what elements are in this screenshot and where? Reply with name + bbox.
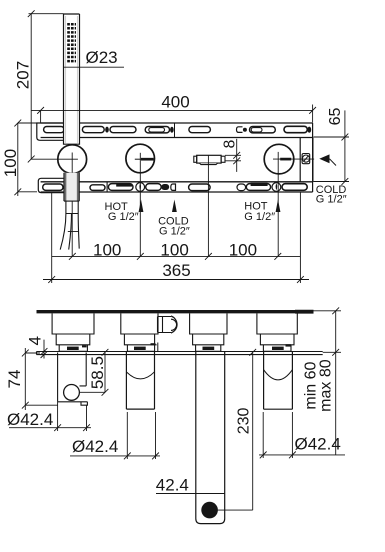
cylinder C3 (center, long) — [196, 351, 225, 523]
svg-text:8: 8 — [221, 140, 238, 149]
dim 400 — [31, 105, 316, 123]
fitting mark bottom — [171, 184, 176, 190]
divider bottom — [106, 182, 108, 193]
wall plate — [37, 352, 323, 355]
svg-text:365: 365 — [162, 261, 190, 280]
dark dot top F — [243, 128, 247, 132]
K1 crosshair horizontal / 207+100 tick line — [31, 158, 78, 160]
teardrop dark top 2 — [170, 127, 174, 133]
hose connector below K1 — [64, 173, 79, 201]
rail top strip — [41, 123, 313, 138]
set screw arrow — [319, 154, 336, 165]
svg-text:74: 74 — [5, 370, 24, 389]
svg-text:100: 100 — [93, 240, 121, 259]
top strip divider — [174, 123, 176, 137]
svg-text:G 1/2″: G 1/2″ — [159, 226, 190, 238]
K2 handle mark — [135, 158, 154, 160]
slot top C — [110, 127, 136, 133]
svg-text:65: 65 — [327, 108, 344, 126]
dark bar in slot F2 — [251, 183, 268, 186]
dim Ø42.4 #3 — [259, 412, 345, 458]
dim 4 — [37, 340, 51, 359]
hose outlet bracket side — [58, 353, 88, 406]
dim 74 — [22, 348, 58, 410]
dim Ø23 leader — [64, 66, 125, 68]
slot bottom F2 (big) — [246, 184, 270, 191]
slot top A (bracket) — [44, 127, 65, 133]
elbow fitting side — [158, 316, 178, 333]
svg-text:Ø42.4: Ø42.4 — [7, 410, 53, 429]
rail bottom strip — [41, 182, 313, 192]
slot bottom G — [282, 184, 307, 191]
dim 100 left — [14, 120, 39, 196]
elbow support line — [157, 343, 159, 352]
slot top E — [189, 127, 211, 133]
slot bottom C (big) — [108, 184, 133, 191]
K2 centerline vertical — [139, 153, 141, 257]
slot top F — [250, 127, 276, 133]
hose upper straight — [66, 201, 78, 213]
set screw — [302, 154, 310, 164]
svg-text:Ø42.4: Ø42.4 — [295, 435, 341, 454]
outlet dot — [201, 502, 218, 519]
left end bracket bottom — [38, 178, 64, 192]
svg-text:G 1/2″: G 1/2″ — [244, 211, 275, 223]
small bracket top F — [237, 127, 243, 133]
cold arrow mid — [172, 200, 177, 213]
rail right dark segment — [295, 310, 314, 314]
svg-text:max 80: max 80 — [317, 359, 334, 412]
svg-text:G 1/2″: G 1/2″ — [108, 211, 139, 223]
svg-text:100: 100 — [160, 240, 188, 259]
dim 58.5 — [80, 349, 109, 396]
dim 230 — [218, 349, 257, 510]
cylinder C2 — [126, 351, 154, 409]
svg-text:400: 400 — [161, 92, 189, 111]
slot bottom E — [189, 184, 211, 191]
dark blob bottom D — [161, 184, 169, 190]
hole glyph bottom 1 — [136, 183, 145, 192]
dim 207 — [28, 10, 64, 162]
rail right edge — [312, 123, 314, 192]
dim 42.4 bottom — [156, 493, 225, 495]
hand shower head and tube — [64, 14, 80, 147]
inner nested end slot D — [149, 128, 165, 132]
hole glyph bottom 2 — [272, 183, 281, 192]
svg-text:4: 4 — [26, 336, 45, 345]
svg-text:207: 207 — [14, 61, 33, 89]
block B1 — [52, 313, 94, 351]
block B3 — [190, 313, 227, 351]
cylinder C4 — [264, 351, 293, 409]
svg-text:Ø42.4: Ø42.4 — [72, 437, 118, 456]
slot bottom B — [90, 185, 105, 191]
knob K1 — [58, 145, 87, 174]
hose curves — [60, 214, 79, 250]
knob K3 — [264, 144, 294, 174]
svg-text:230: 230 — [235, 407, 252, 434]
svg-text:100: 100 — [229, 240, 257, 259]
dim 65 — [314, 110, 350, 184]
dim Ø42.4 #2 — [70, 412, 160, 459]
slot top D — [145, 127, 169, 133]
spray face rows — [67, 24, 76, 61]
slot bottom A (bracket) — [43, 184, 63, 190]
svg-text:42.4: 42.4 — [156, 475, 189, 494]
knob K2 — [126, 144, 155, 173]
teardrop dark top 1 — [105, 127, 109, 133]
block B4 — [257, 313, 297, 351]
dim min60 max80 — [314, 307, 342, 455]
dim Ø42.4 #1 — [9, 402, 91, 431]
teardrop dark top 3 — [307, 127, 311, 133]
slot bottom D — [146, 184, 162, 191]
slot top G — [284, 126, 307, 132]
svg-text:100: 100 — [1, 149, 20, 177]
hot arrow left — [139, 200, 144, 213]
svg-text:58.5: 58.5 — [88, 356, 107, 389]
svg-text:G 1/2″: G 1/2″ — [316, 194, 347, 206]
dim 8 — [225, 139, 241, 172]
hot arrow right — [276, 200, 281, 213]
spout centerline down — [207, 165, 209, 257]
left end bracket top — [37, 123, 64, 140]
K3 crosshair horizontal — [273, 158, 314, 160]
spout center — [194, 155, 225, 164]
right end cap — [300, 138, 313, 182]
dim 100x3 line — [52, 253, 301, 260]
K1 centerline vertical — [71, 153, 73, 257]
dark bar in slot C — [116, 184, 132, 187]
inner nested end slot F — [251, 128, 262, 132]
dim 365 — [43, 193, 309, 284]
slot bottom F1 — [237, 184, 246, 191]
block B2 — [121, 313, 158, 351]
svg-text:Ø23: Ø23 — [86, 48, 118, 67]
slot top B — [82, 127, 104, 133]
hose outlet circle side — [64, 385, 80, 401]
K3 centerline vertical — [277, 152, 279, 257]
rail edge-on — [37, 310, 314, 313]
